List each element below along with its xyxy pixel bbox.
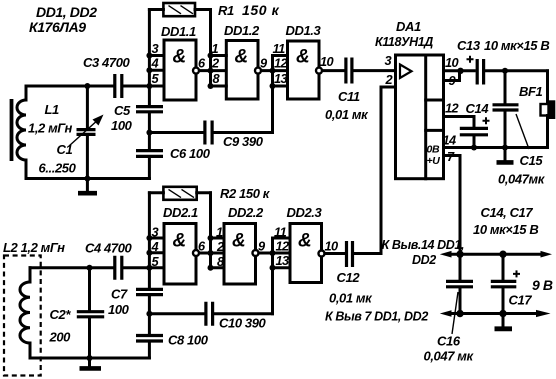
svg-text:C8 100: C8 100 — [168, 333, 209, 348]
capacitor C6 — [136, 146, 211, 161]
svg-text:DD1.2: DD1.2 — [224, 23, 260, 38]
svg-text:DD1.1: DD1.1 — [161, 24, 196, 39]
gate DD1.3 — [273, 23, 334, 99]
op-amp U1 DA1 — [375, 19, 459, 179]
svg-text:1,2 мГн: 1,2 мГн — [28, 121, 73, 136]
svg-text:C17: C17 — [509, 293, 533, 308]
svg-text:К Выв.14 DD1,: К Выв.14 DD1, — [382, 238, 465, 252]
svg-text:К176ЛА9: К176ЛА9 — [29, 19, 86, 35]
capacitor C17 — [491, 254, 533, 326]
capacitor C14 — [444, 101, 490, 151]
svg-text:3: 3 — [152, 225, 159, 240]
wire bottom of tank 2 — [30, 357, 149, 360]
svg-text:0В: 0В — [427, 144, 440, 156]
svg-text:0,01 мк: 0,01 мк — [325, 107, 369, 122]
inductor L2 — [3, 240, 65, 376]
svg-text:DD2.2: DD2.2 — [228, 205, 264, 220]
svg-text:DA1: DA1 — [396, 19, 421, 34]
capacitor C8 — [136, 333, 209, 348]
svg-text:10 мк×15 В: 10 мк×15 В — [484, 38, 549, 53]
svg-text:C14, C17: C14, C17 — [481, 205, 534, 220]
resistor R1 — [149, 2, 279, 18]
svg-text:&: & — [173, 231, 186, 252]
capacitor C16 — [424, 254, 475, 364]
wire top main (L1 top to C3) — [26, 85, 113, 88]
wire DA1 pin2 to C12 node — [381, 87, 396, 254]
svg-text:10: 10 — [320, 54, 334, 69]
svg-text:10 мк×15 В: 10 мк×15 В — [473, 222, 538, 237]
capacitor C13 — [457, 38, 549, 85]
node vertical input chain DD2.1 (wire) — [146, 193, 152, 358]
svg-text:C10 390: C10 390 — [219, 316, 267, 331]
svg-text:C3 4700: C3 4700 — [83, 55, 131, 70]
svg-text:0,01 мк: 0,01 мк — [329, 291, 373, 306]
svg-text:C2*: C2* — [50, 307, 72, 322]
wire R1 right to DD1.2 inputs — [208, 10, 214, 90]
svg-text:DD2: DD2 — [412, 253, 436, 267]
node +9V rail — [440, 251, 552, 258]
svg-text:DD1, DD2: DD1, DD2 — [36, 4, 97, 20]
svg-text:C6 100: C6 100 — [170, 146, 211, 161]
svg-text:DD1.3: DD1.3 — [286, 23, 322, 38]
ground (tank 1) — [78, 179, 97, 194]
svg-text:3: 3 — [385, 53, 392, 68]
gate DD2.2 — [211, 205, 267, 284]
wire DA1 pin9 tie — [444, 68, 464, 81]
svg-text:C5: C5 — [114, 103, 131, 118]
svg-text:L2 1,2 мГн: L2 1,2 мГн — [3, 240, 65, 255]
svg-text:12: 12 — [445, 101, 459, 116]
node vertical input chain DD1.1 (wire) — [146, 10, 152, 179]
wire DA1 pin10 out — [444, 69, 475, 72]
svg-text:100: 100 — [108, 302, 130, 317]
svg-text:C9 390: C9 390 — [223, 134, 264, 149]
wire DD2.2 out to DD2.3 — [259, 252, 290, 255]
svg-text:10: 10 — [445, 55, 459, 70]
wire DD2.1 out to DD2.2 — [199, 252, 224, 255]
svg-text:C4 4700: C4 4700 — [85, 241, 133, 256]
gate DD1.2 — [211, 23, 269, 99]
wire C4 to DD2.1 pin5 — [123, 266, 164, 269]
svg-text:C15: C15 — [520, 153, 544, 168]
label DD1,DD2 type — [29, 4, 97, 35]
svg-text:4: 4 — [151, 56, 159, 71]
capacitor C5 — [111, 103, 163, 133]
svg-text:10: 10 — [325, 239, 339, 254]
svg-text:&: & — [296, 47, 309, 68]
svg-text:13: 13 — [274, 71, 288, 86]
wire bottom of tank 1 — [26, 177, 149, 180]
svg-text:14: 14 — [443, 133, 457, 148]
node DD2.3 inputs vertical — [270, 238, 291, 314]
svg-text:200: 200 — [49, 330, 72, 345]
svg-text:C11: C11 — [338, 89, 360, 104]
svg-text:0,047 мк: 0,047 мк — [424, 349, 475, 364]
wire bottom main (L2 top to C4) — [30, 266, 113, 269]
capacitor C11 — [322, 58, 395, 123]
svg-text:11: 11 — [273, 41, 286, 56]
svg-text:&: & — [298, 231, 311, 252]
svg-text:DD2.1: DD2.1 — [163, 205, 198, 220]
svg-text:R1: R1 — [218, 3, 234, 18]
svg-text:К Выв 7 DD1, DD2: К Выв 7 DD1, DD2 — [325, 310, 428, 324]
svg-text:C14: C14 — [466, 101, 490, 116]
gate DD2.1 — [149, 205, 206, 284]
node DD1.3 inputs vertical — [270, 56, 288, 133]
resistor R2 — [149, 186, 270, 201]
svg-text:150 к: 150 к — [242, 2, 280, 18]
svg-text:13: 13 — [276, 253, 290, 268]
svg-text:12: 12 — [276, 239, 290, 254]
capacitor C1 variable — [39, 83, 104, 182]
ground (DA1 output) — [497, 148, 514, 163]
svg-text:DD2.3: DD2.3 — [287, 205, 323, 220]
wire DD1.2 out to DD1.3 — [261, 69, 287, 72]
svg-text:BF1: BF1 — [519, 84, 543, 99]
svg-text:L1: L1 — [45, 102, 60, 117]
capacitor C7 — [108, 287, 163, 318]
svg-text:2: 2 — [385, 72, 393, 87]
svg-text:C16: C16 — [437, 334, 461, 349]
svg-text:C1: C1 — [57, 142, 73, 157]
inductor L1 — [12, 86, 73, 179]
capacitor C9 — [151, 121, 273, 150]
svg-text:6...250: 6...250 — [39, 161, 77, 176]
ground (supply) — [495, 326, 513, 331]
svg-text:&: & — [232, 231, 245, 252]
capacitor C3 — [83, 55, 131, 98]
wire output bottom rail (pin14) — [444, 146, 548, 149]
svg-text:12: 12 — [274, 56, 288, 71]
svg-text:&: & — [235, 47, 248, 68]
svg-text:0,047мк: 0,047мк — [498, 172, 546, 187]
svg-text:11: 11 — [274, 225, 287, 240]
capacitor C4 — [85, 241, 133, 280]
ground (tank 2) — [80, 358, 102, 368]
svg-text:3: 3 — [152, 41, 159, 56]
svg-text:2: 2 — [216, 239, 224, 254]
capacitor C2 — [49, 265, 105, 361]
svg-text:К118УН1Д: К118УН1Д — [375, 35, 433, 49]
capacitor C15 — [493, 71, 546, 187]
speaker BF1 — [519, 71, 555, 148]
svg-text:4: 4 — [151, 239, 159, 254]
label supply texts — [325, 205, 553, 324]
svg-text:R2 150 к: R2 150 к — [220, 186, 271, 201]
capacitor C12 — [325, 241, 381, 306]
wire DD1.1 out to DD1.2 — [199, 69, 226, 72]
svg-text:100: 100 — [111, 118, 133, 133]
svg-text:+U: +U — [427, 155, 441, 167]
svg-text:&: & — [173, 47, 186, 68]
svg-text:1: 1 — [216, 225, 223, 240]
svg-text:2: 2 — [211, 56, 219, 71]
capacitor C10 — [151, 302, 273, 331]
wire DA1 pin7 to +rail — [444, 156, 461, 255]
gate DD2.3 — [274, 205, 338, 283]
svg-text:9 В: 9 В — [532, 277, 553, 293]
gate DD1.1 — [149, 24, 206, 100]
node 0V rail — [440, 310, 551, 317]
svg-text:C7: C7 — [111, 287, 128, 302]
svg-text:C13: C13 — [457, 38, 481, 53]
wire C3 to DD1.1 pin5 — [123, 85, 164, 88]
svg-text:1: 1 — [212, 41, 219, 56]
wire R2 right to DD2.2 inputs — [208, 193, 214, 271]
svg-text:C12: C12 — [337, 270, 361, 285]
